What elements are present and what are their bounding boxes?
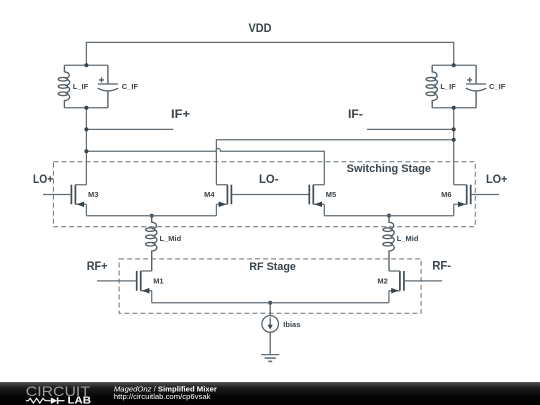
junction RF source bus to Ibias bbox=[268, 301, 272, 305]
inductor L_IF left bbox=[58, 65, 88, 108]
footer credit text bbox=[114, 384, 217, 401]
wire left IF vertical bbox=[85, 108, 87, 185]
annotation box Switching Stage (dashed) bbox=[53, 162, 475, 227]
node RF- label bbox=[432, 259, 451, 273]
wire RF source bus bbox=[152, 302, 389, 304]
junction right tank top bbox=[452, 63, 456, 67]
svg-text:C_IF: C_IF bbox=[489, 82, 506, 91]
node LO+ right label bbox=[486, 172, 507, 186]
annotation box RF Stage (dashed) bbox=[119, 259, 421, 313]
junction IF- tap bbox=[452, 127, 456, 131]
wire M2 source lead bbox=[388, 291, 390, 303]
svg-text:LAB: LAB bbox=[68, 394, 92, 405]
wire M1 source lead bbox=[151, 291, 153, 303]
svg-text:M1: M1 bbox=[153, 276, 163, 285]
svg-text:L_Mid: L_Mid bbox=[397, 234, 419, 243]
node RF+ gate wire bbox=[97, 280, 137, 282]
svg-text:L_IF: L_IF bbox=[440, 82, 456, 91]
svg-text:C_IF: C_IF bbox=[122, 82, 139, 91]
logo resistor zigzag bbox=[26, 398, 51, 403]
svg-text:IF+: IF+ bbox=[171, 107, 190, 121]
ground bbox=[261, 355, 279, 362]
wire M3 source lead bbox=[85, 204, 87, 215]
wire cross-couple M4 drain to right-IF bbox=[216, 140, 453, 185]
svg-text:RF-: RF- bbox=[432, 259, 451, 273]
junction left tank bottom bbox=[84, 106, 88, 110]
svg-text:RF+: RF+ bbox=[87, 259, 108, 273]
transistor M6 bbox=[441, 185, 471, 207]
inductor L_Mid left bbox=[146, 216, 182, 271]
wire right source bus bbox=[324, 215, 453, 217]
inductor L_IF right bbox=[426, 65, 456, 108]
junction M5-M6 source bus to L_Mid right bbox=[387, 214, 391, 218]
wire right tank top bbox=[432, 64, 476, 66]
label RF Stage bbox=[249, 261, 296, 273]
wire left tank bottom bbox=[64, 107, 108, 109]
wire left source bus bbox=[86, 215, 216, 217]
junction M3-M4 source bus to L_Mid left bbox=[150, 214, 154, 218]
svg-text:L_Mid: L_Mid bbox=[160, 234, 182, 243]
node IF+ stub wire bbox=[86, 128, 173, 130]
junction right cross-couple tap bbox=[452, 138, 456, 142]
svg-text:http://circuitlab.com/cp6vsak: http://circuitlab.com/cp6vsak bbox=[114, 392, 211, 401]
node LO+ right gate wire bbox=[471, 194, 499, 196]
node LO- label bbox=[259, 172, 279, 186]
node LO+ left label bbox=[33, 172, 53, 186]
junction left cross-couple tap bbox=[84, 149, 88, 153]
node RF+ label bbox=[87, 259, 108, 273]
wire VDD top rail bbox=[86, 42, 453, 65]
transistor M1 bbox=[137, 271, 164, 294]
node IF+ label bbox=[171, 107, 190, 121]
wire M6 source lead bbox=[453, 204, 455, 215]
transistor M4 bbox=[204, 185, 231, 207]
junction left tank top bbox=[84, 63, 88, 67]
svg-text:VDD: VDD bbox=[249, 21, 272, 35]
node VDD label bbox=[249, 21, 272, 35]
node RF- gate wire bbox=[404, 280, 442, 282]
svg-text:RF Stage: RF Stage bbox=[249, 261, 296, 273]
wire right IF vertical bbox=[453, 108, 455, 185]
footer bar bbox=[0, 382, 540, 405]
node LO+ left gate wire bbox=[43, 194, 71, 196]
svg-text:LO+: LO+ bbox=[33, 172, 53, 186]
svg-text:IF-: IF- bbox=[348, 107, 363, 121]
wire cross-couple left-IF to M5 drain with hop bbox=[86, 148, 324, 184]
transistor M3 bbox=[71, 185, 98, 207]
inductor L_Mid right bbox=[383, 216, 419, 271]
node IF- label bbox=[348, 107, 363, 121]
wire M5 source lead bbox=[323, 204, 325, 215]
capacitor C_IF left bbox=[98, 65, 139, 108]
svg-text:LO-: LO- bbox=[259, 172, 279, 186]
CircuitLab logo bbox=[26, 383, 92, 405]
node LO- gate wire M4-M5 bbox=[231, 194, 309, 196]
wire left tank top bbox=[64, 64, 108, 66]
svg-text:L_IF: L_IF bbox=[73, 82, 89, 91]
logo diode bbox=[51, 397, 58, 404]
transistor M5 bbox=[309, 185, 336, 207]
capacitor C_IF right bbox=[466, 65, 506, 108]
label Switching Stage bbox=[347, 163, 431, 175]
svg-text:M6: M6 bbox=[441, 190, 451, 199]
node IF- stub wire bbox=[367, 128, 454, 130]
svg-text:M2: M2 bbox=[377, 276, 387, 285]
svg-text:M3: M3 bbox=[88, 190, 98, 199]
junction IF+ tap bbox=[84, 127, 88, 131]
current source Ibias bbox=[262, 303, 300, 355]
wire M4 source lead bbox=[215, 204, 217, 215]
svg-text:M4: M4 bbox=[204, 190, 215, 199]
svg-text:Switching Stage: Switching Stage bbox=[347, 163, 431, 175]
svg-text:Ibias: Ibias bbox=[283, 320, 300, 329]
svg-text:LO+: LO+ bbox=[486, 172, 507, 186]
wire right tank bottom bbox=[432, 107, 476, 109]
transistor M2 bbox=[377, 271, 404, 294]
junction right tank bottom bbox=[452, 106, 456, 110]
svg-text:M5: M5 bbox=[326, 190, 336, 199]
